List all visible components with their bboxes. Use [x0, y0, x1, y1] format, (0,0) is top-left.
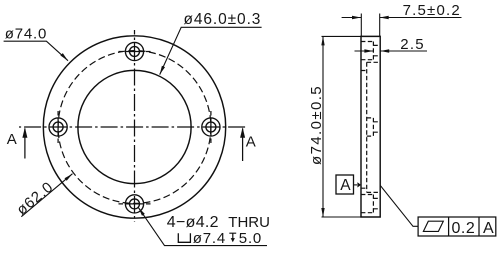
svg-text:A: A — [246, 134, 256, 151]
svg-text:ø74.0: ø74.0 — [5, 26, 47, 43]
svg-text:0.2: 0.2 — [452, 220, 476, 237]
svg-text:ø46.0±0.3: ø46.0±0.3 — [184, 11, 262, 28]
svg-text:ø74.0±0.5: ø74.0±0.5 — [308, 85, 325, 165]
svg-text:2.5: 2.5 — [400, 36, 425, 53]
svg-text:THRU: THRU — [228, 214, 270, 231]
svg-text:7.5±0.2: 7.5±0.2 — [403, 2, 461, 19]
svg-text:A: A — [7, 131, 17, 148]
svg-text:4−ø4.2: 4−ø4.2 — [167, 214, 219, 231]
svg-text:A: A — [340, 177, 351, 194]
svg-text:5.0: 5.0 — [239, 230, 262, 247]
svg-text:A: A — [483, 220, 494, 237]
svg-text:ø7.4: ø7.4 — [193, 230, 226, 247]
